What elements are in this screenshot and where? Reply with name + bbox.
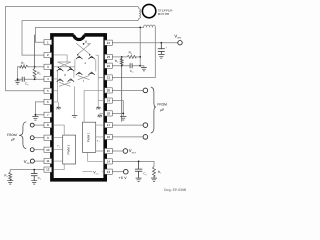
capacitor CF (electrolytic on VMM rail) [158, 43, 165, 55]
bridge 2 top cross [58, 62, 71, 67]
pin 20 [105, 88, 113, 93]
svg-text:PWM 2: PWM 2 [66, 144, 70, 154]
transistor Q5 (bridge2 TL) [57, 68, 64, 71]
pin 3 [44, 64, 52, 69]
bridge 1 output tap to pin3 [53, 66, 75, 68]
wire pin10 to terminal [34, 149, 44, 151]
node pin22 junction [121, 65, 123, 67]
capacitor CT right [135, 161, 142, 178]
node CF tap [160, 42, 162, 44]
pin 7 [44, 112, 52, 117]
pin 22 [105, 63, 113, 68]
pin 24 [105, 40, 113, 45]
svg-text:21: 21 [107, 76, 111, 80]
wire pin11 to VREF terminal [34, 160, 44, 162]
wire pin17 to terminal [112, 124, 143, 126]
ground below CF [158, 54, 165, 58]
svg-text:17: 17 [107, 123, 111, 127]
pin 8 [44, 123, 52, 128]
svg-text:MOTOR: MOTOR [158, 12, 170, 16]
svg-text:11: 11 [46, 159, 49, 163]
svg-text:12: 12 [46, 168, 50, 172]
pin 17 [105, 123, 113, 128]
resistor RE (horizontal) [127, 55, 136, 58]
pin 21 [105, 75, 113, 80]
transistor Q3 (bridge1 BL) [76, 72, 83, 75]
bridge 2 bottom cross [59, 82, 71, 86]
pin 14 [105, 159, 113, 164]
wire pin3 [28, 66, 44, 68]
pin 19 [105, 98, 113, 103]
svg-text:18: 18 [107, 112, 111, 116]
bridge 2 rails [58, 71, 75, 115]
svg-text:FROM: FROM [157, 103, 167, 107]
node pin23/RC [121, 56, 123, 58]
pin 15 [105, 148, 113, 153]
terminal VMM [178, 41, 182, 45]
transistor Q7 (bridge2 BL) [57, 79, 64, 82]
snubber vertical wire from winding2 line [139, 27, 141, 65]
resistor RE left (horizontal) [20, 65, 28, 68]
svg-text:13: 13 [107, 170, 111, 174]
svg-text:Dwg. EP-039B: Dwg. EP-039B [164, 188, 187, 192]
wire pin16 to terminal [112, 136, 143, 138]
wire pin14 [112, 161, 154, 166]
wire pin9 to terminal [34, 137, 44, 139]
pin 1 [44, 40, 52, 45]
PWM 1 block [83, 122, 96, 152]
internal wire pin14 to PWM1 [88, 152, 104, 161]
pin 11 [44, 159, 52, 164]
svg-text:PWM 1: PWM 1 [86, 132, 90, 142]
internal wires PWM1 right [96, 125, 104, 151]
bridge 1 bottom cross [78, 76, 90, 82]
brace FROM uP left [19, 122, 26, 149]
PWM 2 block [63, 135, 76, 164]
bridge 2 taps [53, 79, 57, 102]
ground right network [140, 66, 144, 68]
transistor Q4 (bridge1 BR) [88, 72, 95, 75]
svg-text:10: 10 [46, 148, 50, 152]
internal wire pin13 VCC [83, 171, 104, 173]
svg-text:+5 V: +5 V [119, 176, 128, 180]
transistor Q2 (bridge1 TR) [88, 56, 95, 59]
pin 4 [44, 76, 52, 81]
node pin3/RC left [34, 66, 36, 68]
pin 6 [44, 99, 52, 104]
svg-text:15: 15 [107, 149, 111, 153]
wire pin8 to terminal [34, 124, 44, 126]
pin 9 [44, 135, 52, 140]
pin 16 [105, 134, 113, 139]
pin 12 [44, 167, 52, 172]
transistor Q8 (bridge2 BR) [68, 79, 75, 82]
bridge 1 top cross [76, 43, 91, 54]
wire pin13 to +5V terminal [112, 171, 124, 173]
svg-text:REF: REF [132, 151, 137, 154]
bridge 1 sense wire to internal ground right [96, 55, 104, 107]
resistor RT right (vertical) [153, 166, 156, 176]
resistor RT left (vertical) [9, 172, 12, 179]
wire pin15 to VREF terminal [112, 150, 123, 152]
wires pins 6,7 to ground [35, 102, 44, 116]
pin 13 [105, 169, 113, 174]
brace FROM uP right [151, 87, 156, 133]
internal ground left [57, 102, 59, 107]
internal wires PWM2 left [53, 125, 64, 170]
resistor RC (vertical) [120, 57, 123, 122]
wire pin24 to VMM [112, 42, 178, 44]
resistor RC left (vertical) [33, 35, 36, 80]
pin 2 [44, 53, 52, 58]
transistor Q6 (bridge2 TR) [68, 68, 75, 71]
wires pins 19,18 to ground [112, 101, 123, 117]
svg-text:23: 23 [107, 55, 111, 59]
ground left network [17, 79, 19, 80]
bridge 2 feed from pin2 [53, 55, 67, 62]
bridge 1 rails [75, 59, 96, 71]
IC notch [74, 33, 85, 37]
pin 10 [44, 147, 52, 152]
svg-text:16: 16 [107, 135, 111, 139]
wire pin4 + capacitor CC left [18, 78, 45, 80]
internal wire pin20/pin18 to PWM1 [84, 91, 104, 123]
svg-text:19: 19 [107, 99, 111, 103]
pin 18 [105, 111, 113, 116]
svg-text:FROM: FROM [7, 133, 17, 137]
svg-text:14: 14 [107, 160, 111, 164]
wire pin23 [112, 56, 127, 58]
svg-text:22: 22 [107, 64, 111, 68]
wire pin12 [10, 170, 44, 172]
svg-text:24: 24 [107, 41, 111, 45]
svg-text:REF: REF [27, 162, 32, 165]
pin 5 [44, 88, 52, 93]
IC U1 body outline [52, 35, 105, 180]
wire pin22 + capacitor CC [112, 65, 140, 67]
svg-text:20: 20 [107, 89, 111, 93]
capacitor CT left [31, 170, 38, 181]
svg-text:MM: MM [177, 37, 181, 40]
pin 23 [105, 54, 113, 59]
wire pin5 to winding1 to pin2 (outer loop) [6, 6, 141, 90]
wire pin20 to terminal [112, 89, 143, 91]
wire pin1 to winding2 to pin21 [35, 25, 155, 77]
stepper motor M1 [142, 4, 155, 17]
transistor Q1 (bridge1 TL) [76, 56, 83, 59]
